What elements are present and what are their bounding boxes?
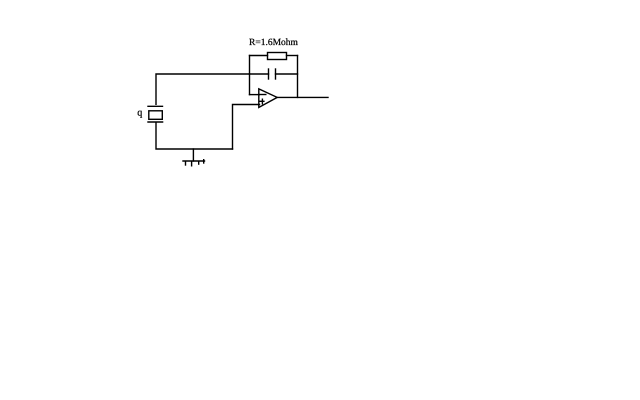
wire to inverting input	[250, 94, 260, 96]
wire capacitor right lead	[276, 73, 298, 75]
svg-text:R=1.6Mohm: R=1.6Mohm	[249, 38, 299, 48]
wire resistor top left lead	[250, 55, 268, 57]
wire output	[277, 96, 328, 98]
piezo transducer q	[148, 106, 163, 122]
capacitor C1	[269, 69, 276, 79]
wire capacitor left lead	[250, 73, 269, 75]
wire from q top to inverting node	[156, 74, 250, 104]
wire ground stem	[192, 149, 194, 161]
resistor R	[268, 53, 287, 60]
wire feedback left vertical	[249, 56, 251, 95]
wire bottom ground rail	[156, 123, 233, 149]
op-amp U1	[259, 89, 277, 108]
svg-text:q: q	[137, 108, 142, 119]
wire to non-inverting input	[233, 105, 260, 150]
wire feedback right vertical	[297, 56, 299, 98]
wire resistor top right lead	[287, 55, 298, 57]
ground	[183, 160, 205, 166]
